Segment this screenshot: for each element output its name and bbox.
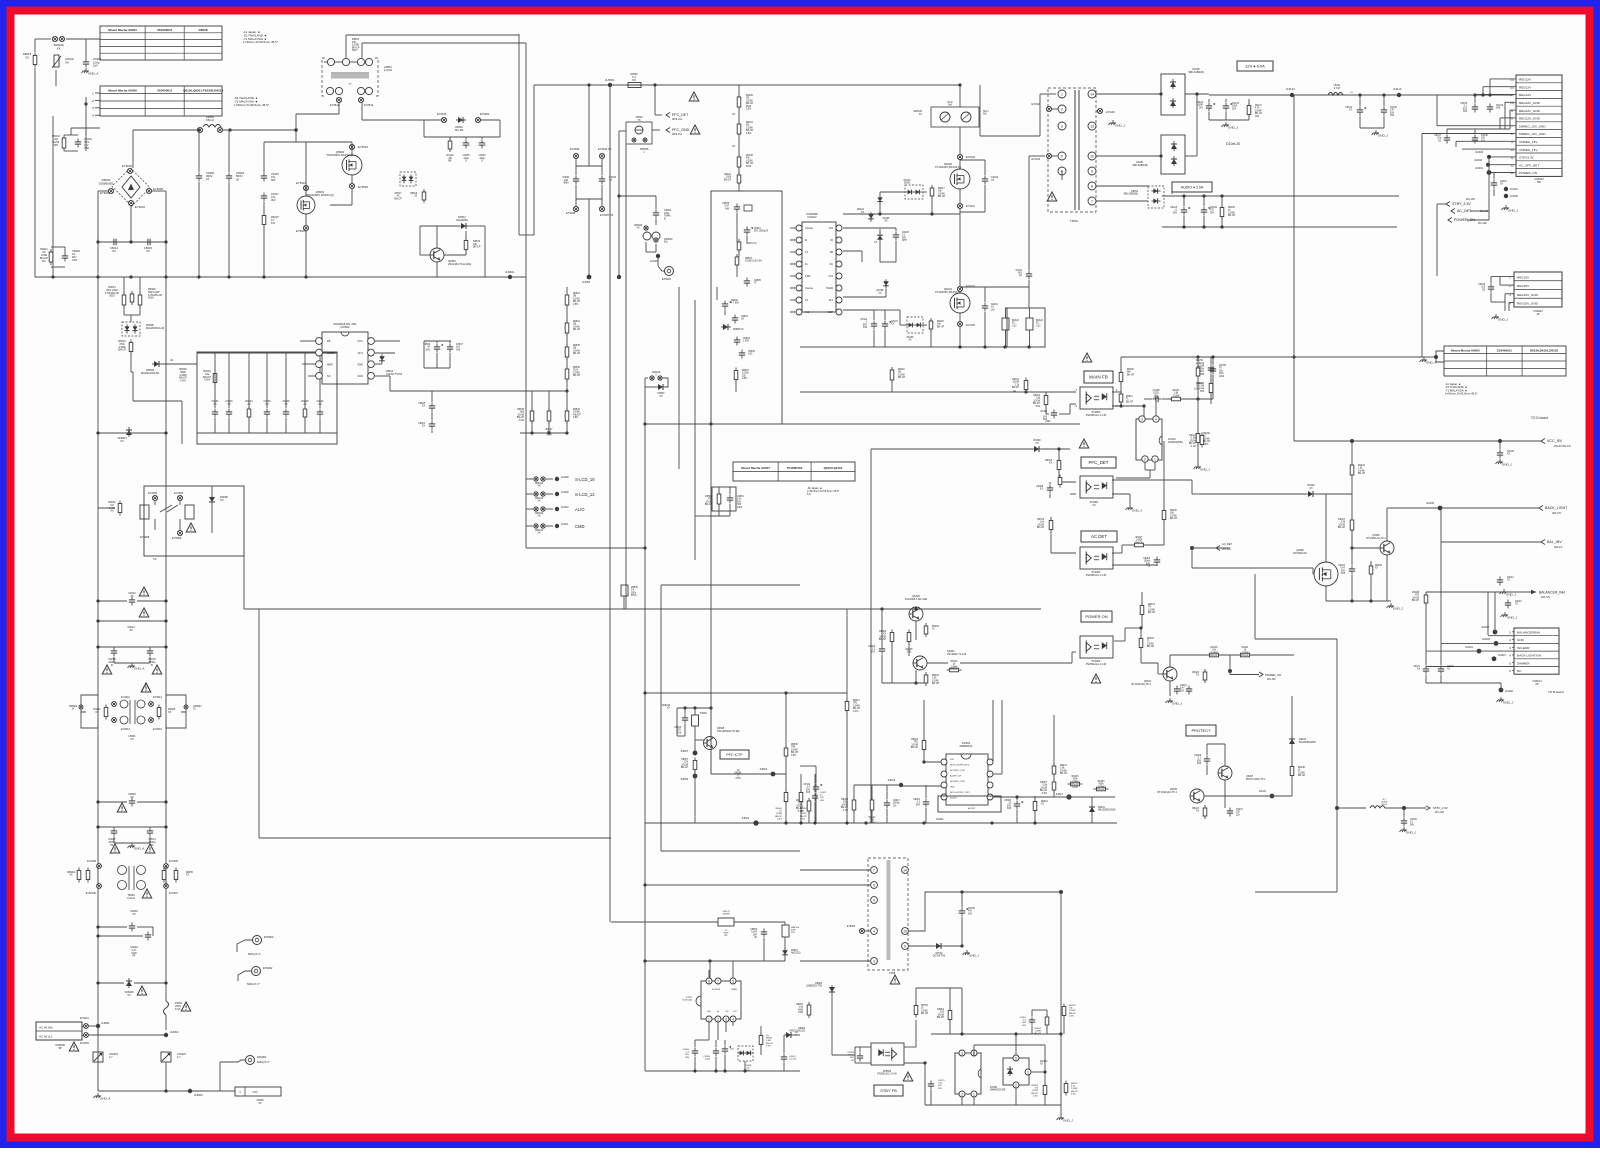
svg-text:BN-CP: BN-CP — [1210, 655, 1218, 657]
wire — [871, 785, 873, 800]
capacitor C6015 — [145, 239, 154, 245]
svg-text:JL6403: JL6403 — [1482, 638, 1491, 641]
wire — [814, 802, 816, 823]
svg-text:R6152: R6152 — [1033, 395, 1040, 397]
pad EY6008b — [859, 928, 864, 933]
svg-text:REG12V_GND: REG12V_GND — [1519, 117, 1541, 121]
wire — [959, 127, 961, 169]
wire — [85, 39, 87, 60]
svg-text:X06: X06 — [737, 504, 742, 506]
svg-text:BN-CP: BN-CP — [1148, 612, 1156, 614]
wire sec2 — [1096, 155, 1161, 157]
svg-text:EY6106: EY6106 — [966, 156, 976, 159]
wire — [1051, 552, 1076, 554]
wire — [1403, 808, 1405, 817]
wire — [655, 244, 657, 252]
capacitor C6121 — [1423, 666, 1429, 675]
svg-text:1/10W: 1/10W — [573, 412, 580, 414]
capacitor C6112 — [1497, 577, 1503, 586]
junction JL6405 — [1493, 630, 1498, 635]
svg-text:TK15A60U,RS1S3,Q): TK15A60U,RS1S3,Q) — [306, 193, 333, 197]
wire — [1212, 375, 1214, 399]
svg-text:XX: XX — [1196, 675, 1200, 677]
wire — [1221, 196, 1223, 207]
T6S8 pin 5 — [871, 882, 878, 889]
svg-text:7: 7 — [1091, 199, 1093, 203]
pad JW6021 — [654, 238, 658, 242]
svg-text:1/10W: 1/10W — [681, 764, 688, 766]
svg-text:D3SB005S: D3SB005S — [99, 181, 114, 185]
svg-text:3: 3 — [725, 1017, 727, 1021]
opto-isolator PC6303 PS2561AL2-1-V-W — [1080, 636, 1113, 658]
svg-text:XX: XX — [1196, 811, 1200, 813]
svg-text:R6536: R6536 — [631, 587, 638, 589]
junction JL6134 — [1290, 93, 1294, 97]
diode D6003 MA2S110CL50 — [152, 361, 162, 367]
wire — [1504, 102, 1506, 129]
svg-text:SL1: SL1 — [829, 299, 834, 302]
resistor R6504 — [737, 239, 741, 253]
svg-text:4: 4 — [873, 929, 875, 933]
wire long vertical x626 — [625, 144, 627, 609]
wire — [1436, 95, 1438, 126]
capacitor C6317 — [884, 800, 890, 809]
svg-text:GND_A: GND_A — [100, 1097, 110, 1101]
svg-text:INV-ERR: INV-ERR — [1517, 646, 1530, 650]
wire — [924, 761, 941, 763]
svg-text:R6511: R6511 — [1126, 396, 1133, 398]
IC6500 pin3 — [723, 1016, 729, 1022]
wire — [381, 356, 383, 362]
wire — [1122, 544, 1133, 546]
svg-text:1kV: 1kV — [991, 309, 995, 311]
wire box edge x259 — [258, 609, 260, 838]
wire — [785, 693, 787, 748]
wire — [1425, 675, 1427, 683]
capacitor C6005 — [129, 798, 135, 807]
wire — [695, 1039, 709, 1041]
svg-text:AC IN (L)·: AC IN (L)· — [39, 1034, 53, 1038]
wire — [694, 1057, 696, 1071]
svg-text:BN-CP: BN-CP — [118, 349, 126, 352]
svg-text:JL6021: JL6021 — [936, 819, 944, 821]
pad EY6101 — [957, 203, 962, 208]
wire — [808, 811, 810, 823]
wire vcc down — [1293, 95, 1295, 441]
svg-text:0.022: 0.022 — [1153, 393, 1159, 395]
svg-text:EY6520: EY6520 — [358, 185, 368, 189]
svg-text:GND_J: GND_J — [1393, 607, 1403, 611]
svg-text:1000p: 1000p — [893, 803, 900, 805]
svg-text:GND_A: GND_A — [88, 72, 98, 76]
svg-text:1/10W: 1/10W — [1358, 470, 1365, 472]
resistor R6320 — [924, 672, 928, 686]
capacitor C6051 — [1029, 1017, 1035, 1026]
svg-text:BN-CP: BN-CP — [1412, 600, 1420, 602]
svg-text:11: 11 — [1510, 156, 1513, 160]
svg-text:XX: XX — [120, 439, 124, 443]
zener VD6004 — [126, 427, 132, 437]
wire vertical — [609, 85, 611, 214]
wire — [436, 226, 438, 248]
svg-text:BN-CP: BN-CP — [724, 179, 732, 181]
svg-text:R6407: R6407 — [1338, 519, 1345, 521]
wire cn row9 — [1456, 140, 1514, 142]
svg-text:IC6102: IC6102 — [807, 215, 816, 219]
wire — [854, 784, 901, 786]
svg-text:2SA1364-T111-1DE: 2SA1364-T111-1DE — [448, 262, 471, 266]
ground GND_J cn3 — [1492, 314, 1509, 322]
table A6005 pin stub — [95, 107, 100, 109]
wire fb-top2 — [362, 42, 526, 44]
wire — [1145, 469, 1155, 471]
svg-text:15V: 15V — [677, 730, 682, 732]
wire — [865, 930, 871, 932]
T6501 secondary pin 13 — [1088, 122, 1096, 130]
wire — [800, 884, 871, 886]
capacitor C6506 — [434, 344, 443, 353]
svg-text:R6400: R6400 — [1170, 510, 1177, 512]
svg-text:EY6009: EY6009 — [172, 536, 182, 540]
svg-text:JL6004: JL6004 — [650, 260, 659, 263]
capacitor C6122 — [1208, 365, 1214, 374]
pad EY6105 — [957, 321, 962, 326]
svg-text:VCC: VCC — [733, 1011, 738, 1013]
wire — [499, 120, 501, 137]
warning triangle — [186, 523, 196, 532]
svg-text:R6127: R6127 — [1255, 105, 1262, 107]
IC6500 pin4 — [730, 1016, 736, 1022]
IC6251 pin3 — [959, 1050, 965, 1056]
wire — [1121, 545, 1123, 553]
capacitor C6010 — [75, 139, 81, 148]
svg-text:15P: 15P — [1537, 181, 1542, 184]
svg-text:PS2561AL2-1-V-W: PS2561AL2-1-V-W — [1086, 663, 1107, 666]
svg-text:BN-CP: BN-CP — [1298, 775, 1306, 777]
svg-text:R6314: R6314 — [1148, 604, 1155, 606]
resistor R6005 — [86, 868, 90, 883]
wire — [1210, 357, 1212, 364]
resistor R6407 — [1350, 517, 1354, 533]
wire y922 — [611, 921, 718, 923]
svg-text:BN-CP: BN-CP — [1127, 374, 1135, 376]
resistor R6065 — [174, 868, 178, 883]
diode D6553 — [784, 1032, 794, 1038]
svg-text:R6315: R6315 — [1072, 776, 1079, 778]
svg-text:1/10W: 1/10W — [791, 749, 798, 751]
resistor R6420 — [1203, 669, 1207, 683]
warning triangle — [141, 683, 151, 692]
svg-text:3: 3 — [1141, 417, 1143, 421]
svg-text:X06: X06 — [1200, 391, 1205, 393]
svg-text:Mount Mecha A6007: Mount Mecha A6007 — [741, 466, 770, 470]
warning triangle stby fb — [903, 1072, 913, 1081]
resistor R6403 — [1350, 462, 1354, 478]
svg-text:XX: XX — [991, 179, 995, 182]
wire — [1125, 627, 1141, 629]
resistor R6122 — [1026, 318, 1033, 330]
svg-text:GND: GND — [805, 275, 811, 278]
resistor R6539 — [303, 406, 307, 420]
svg-text:8: 8 — [1091, 184, 1093, 188]
wire — [694, 770, 696, 823]
svg-text:100 2W: 100 2W — [1196, 386, 1205, 388]
svg-text:1: 1 — [708, 1017, 710, 1021]
svg-text:1/10W: 1/10W — [1098, 786, 1105, 788]
resistor R6314c — [870, 797, 874, 813]
ground GND_J stby — [1400, 827, 1417, 835]
svg-text:10: 10 — [1090, 154, 1094, 158]
svg-text:PFC iCTP: PFC iCTP — [726, 753, 743, 757]
wire — [1016, 797, 1018, 800]
wire — [880, 261, 896, 263]
arrow PFC_DET — [666, 113, 670, 118]
wire — [831, 1043, 833, 1055]
bridge rectifier D6000 D3SB005S — [112, 168, 150, 206]
svg-text:EY6512: EY6512 — [364, 103, 374, 107]
pad EY6047 — [599, 206, 604, 211]
svg-text:IPSO: IPSO — [631, 595, 637, 597]
wire y655 — [1170, 654, 1294, 656]
svg-text:C6121: C6121 — [1413, 666, 1420, 668]
IC6500 pin2 — [715, 1016, 721, 1022]
IC6500 pin8 — [706, 978, 712, 984]
svg-text:0.5%: 0.5% — [1069, 1015, 1074, 1017]
wire — [1046, 413, 1049, 415]
label box AUDIO — [1172, 182, 1212, 192]
wire — [899, 310, 901, 325]
wire — [980, 135, 1040, 137]
wire — [879, 241, 881, 262]
svg-text:WATSUI: WATSUI — [791, 926, 800, 929]
svg-text:9: 9 — [1091, 169, 1093, 173]
pad EY6004 — [128, 200, 133, 205]
wire — [420, 254, 430, 256]
wire mrs — [302, 363, 316, 365]
capacitor C6536 — [283, 409, 289, 418]
wire box edge y838 — [259, 837, 611, 839]
svg-text:VCC_I5V: VCC_I5V — [1547, 439, 1563, 443]
svg-text:5516: 5516 — [148, 297, 154, 300]
wire — [718, 504, 720, 516]
wire — [884, 330, 886, 347]
wire — [960, 286, 985, 288]
wire vertical x695 — [694, 300, 696, 560]
wire fb — [300, 340, 316, 342]
wire long bus y609 — [244, 608, 1041, 610]
wire backlight — [1390, 507, 1539, 509]
wire — [285, 353, 287, 408]
svg-text:106B005S-TR3: 106B005S-TR3 — [806, 986, 823, 988]
junction JL6401 — [1487, 170, 1492, 175]
svg-text:C6503: C6503 — [743, 338, 750, 340]
wire — [961, 945, 963, 947]
svg-text:(1): (1) — [1510, 78, 1514, 82]
transistor Q6404 RT1N141AC-TP-1 — [1163, 667, 1177, 681]
wire — [658, 258, 664, 271]
wire — [1145, 544, 1164, 546]
svg-text:DG708-TR3: DG708-TR3 — [933, 956, 946, 958]
svg-text:UNREG_15V: UNREG_15V — [1519, 148, 1538, 152]
svg-text:RT1P141RC-TP-1: RT1P141RC-TP-1 — [1246, 778, 1266, 781]
wire — [1141, 615, 1143, 628]
svg-text:JL6411: JL6411 — [1259, 791, 1267, 793]
connector CN6003 — [1514, 272, 1562, 307]
T6501 secondary pin 9 — [1088, 167, 1096, 175]
wire — [1052, 155, 1058, 157]
wire — [715, 1040, 717, 1047]
wire — [900, 324, 907, 326]
svg-text:Hmm: Hmm — [947, 102, 953, 104]
capacitor C6007 — [111, 828, 117, 837]
svg-text:ET6000: ET6000 — [264, 935, 274, 939]
svg-text:EY6105: EY6105 — [966, 324, 976, 327]
IC U6102 CS2000F — [802, 222, 836, 312]
svg-text:TK16A60X,RS1S3,Q): TK16A60X,RS1S3,Q) — [935, 165, 961, 169]
svg-text:BN-CP: BN-CP — [911, 747, 919, 749]
capacitor C6105 — [1472, 104, 1478, 113]
wire — [1034, 811, 1036, 823]
svg-text:0.5%: 0.5% — [546, 434, 551, 436]
svg-text:R6327: R6327 — [1136, 537, 1143, 539]
resistor R6503 — [735, 254, 739, 268]
zener D6102 — [877, 232, 883, 242]
wire — [984, 185, 986, 212]
svg-text:JW6020: JW6020 — [634, 225, 643, 227]
wire stby — [1337, 807, 1366, 809]
wire — [566, 357, 568, 369]
wire — [526, 508, 533, 510]
wire — [162, 363, 197, 365]
wire — [531, 391, 533, 411]
svg-text:0.5%: 0.5% — [1071, 1093, 1076, 1095]
wire bus y424 right — [711, 423, 1080, 425]
capacitor C6555 — [761, 929, 767, 938]
wire — [130, 364, 132, 372]
pad JW6014 — [534, 524, 538, 528]
svg-text:0.5%: 0.5% — [573, 304, 578, 306]
IC6101 pin4 — [1153, 416, 1159, 422]
capacitor C6113 — [1505, 600, 1511, 609]
svg-text:XX: XX — [422, 406, 426, 408]
wire — [623, 596, 625, 609]
svg-text:STDV3.3V: STDV3.3V — [1519, 156, 1535, 160]
pad EY6006b — [177, 495, 182, 500]
wire — [165, 720, 167, 728]
svg-text:C6408: C6408 — [1194, 755, 1201, 757]
wire — [198, 182, 200, 277]
svg-text:510k: 510k — [573, 370, 579, 372]
wire — [1482, 87, 1484, 95]
wire — [923, 324, 927, 326]
wire — [198, 130, 200, 172]
wire — [855, 1046, 871, 1048]
wire — [1141, 662, 1158, 664]
wire — [526, 493, 533, 495]
wire — [351, 142, 353, 155]
svg-text:3: 3 — [961, 1051, 963, 1055]
wire — [1096, 200, 1148, 202]
svg-text:C6105: C6105 — [1460, 103, 1467, 105]
svg-text:C6134: C6134 — [1345, 107, 1352, 109]
svg-text:EY6510: EY6510 — [358, 145, 368, 149]
wire — [319, 353, 321, 408]
wire — [904, 1046, 916, 1048]
svg-text:D6008: D6008 — [199, 28, 208, 32]
wire — [1112, 391, 1121, 393]
dual diode D6005 MA4Z150CL33 — [122, 322, 140, 336]
wire audio gnd rail — [1162, 226, 1397, 228]
svg-text:L=60mm,S=26.5mm 45.5°: L=60mm,S=26.5mm 45.5° — [1445, 392, 1478, 396]
warning triangle main fb — [1082, 353, 1092, 362]
svg-text:2M: 2M — [746, 125, 749, 127]
wire — [1046, 1025, 1048, 1034]
svg-text:SOURCE: SOURCE — [712, 989, 721, 991]
wire — [684, 708, 686, 714]
svg-text:6P: 6P — [1535, 683, 1538, 686]
pad EY6039 — [573, 153, 578, 158]
junction JL6151 — [1504, 187, 1508, 191]
svg-text:JW6012: JW6012 — [535, 498, 544, 500]
svg-text:R6124: R6124 — [1189, 435, 1196, 437]
wire — [1487, 592, 1489, 635]
wire vertical x962 — [961, 988, 963, 1034]
wire — [1224, 780, 1226, 808]
resistor R6118 — [929, 318, 933, 332]
wire — [71, 127, 100, 129]
svg-text:1/10W: 1/10W — [1072, 781, 1079, 783]
wire — [1440, 643, 1442, 665]
svg-text:XX: XX — [186, 875, 190, 877]
svg-text:EY6148: EY6148 — [1106, 111, 1115, 114]
svg-text:D: D — [465, 160, 467, 163]
svg-text:XX: XX — [1507, 580, 1511, 582]
wire cn row10 — [1462, 148, 1514, 150]
svg-text:XX: XX — [127, 994, 131, 997]
svg-text:MA2S110CL50: MA2S110CL50 — [141, 371, 160, 375]
wire cn row2 — [1483, 86, 1514, 88]
arrow BAL_INV — [1541, 540, 1545, 545]
svg-text:ET6003: ET6003 — [662, 278, 671, 281]
svg-text:450V: 450V — [563, 182, 569, 185]
wire — [784, 922, 786, 925]
svg-text:STBY FB: STBY FB — [880, 1088, 897, 1093]
ground GND_J 12V — [1222, 122, 1239, 130]
wire — [881, 609, 883, 646]
svg-text:Q6100,Q6501,T6S300,D6518: Q6100,Q6501,T6S300,D6518 — [183, 88, 223, 92]
wire — [738, 85, 740, 191]
ring terminal ET6000 — [253, 936, 262, 945]
svg-text:5.6: 5.6 — [807, 492, 811, 496]
wire rail-L upper — [97, 191, 99, 277]
pad — [632, 138, 636, 142]
MOSFET Q6501 TK15A60U — [297, 196, 315, 214]
svg-text:(4): (4) — [1510, 101, 1514, 105]
transistor Q6405 RT1N141AC-TP-1 — [1190, 789, 1204, 803]
svg-text:50V: 50V — [916, 804, 921, 806]
junction JL6407 — [1492, 656, 1497, 661]
svg-text:JW6046: JW6046 — [662, 705, 671, 707]
wire zcd — [375, 375, 390, 377]
svg-text:R6122: R6122 — [1036, 320, 1043, 322]
wire — [1058, 470, 1060, 482]
svg-text:PFC_DET: PFC_DET — [1088, 460, 1108, 465]
T6S8 pin 6 — [871, 897, 878, 904]
thermistor cluster JW6100 — [931, 107, 979, 127]
wire — [70, 128, 72, 135]
svg-text:1/10W: 1/10W — [911, 744, 918, 746]
svg-text:1/10W: 1/10W — [937, 1014, 944, 1016]
